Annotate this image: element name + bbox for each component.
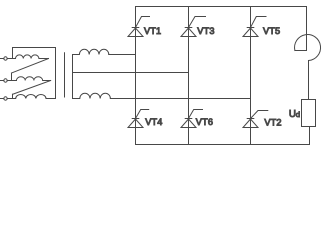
wire top DC bus <box>136 6 307 8</box>
wire resistor to bottom bus <box>309 127 311 145</box>
wire bridge leg 3 <box>250 7 252 145</box>
wire lead-in phase C <box>0 98 4 100</box>
wire phase b to bridge leg 2 <box>73 72 189 74</box>
transformer T primary phase C terminal <box>4 97 7 100</box>
load resistor R <box>302 100 316 127</box>
smoothing reactor L (loop) <box>295 35 321 61</box>
svg-text:VT5: VT5 <box>263 26 280 36</box>
wire delta right rail <box>55 48 57 99</box>
wire phase a to bridge leg 1 <box>109 54 136 56</box>
wire delta link B-C (diagonal) <box>13 81 51 95</box>
wire terminal B to winding <box>7 80 11 82</box>
wire bottom DC bus <box>136 144 310 146</box>
svg-text:VT4: VT4 <box>145 117 162 127</box>
wire delta stub A up <box>12 48 14 59</box>
wire into reactor center <box>295 50 307 52</box>
wire terminal A to winding <box>7 58 12 60</box>
primary winding A (coil) <box>13 55 49 59</box>
primary winding C (coil) <box>13 94 56 98</box>
secondary winding a (coil) <box>73 49 109 54</box>
thyristor VT5 <box>243 17 266 37</box>
wire terminal C to winding <box>7 98 12 100</box>
thyristor VT1 <box>128 17 150 37</box>
svg-text:VT1: VT1 <box>144 26 161 36</box>
wire bridge leg 2 <box>188 7 190 145</box>
svg-text:VT2: VT2 <box>264 117 281 127</box>
wire delta stub B up <box>11 73 13 81</box>
thyristor VT3 <box>181 17 206 37</box>
svg-text:d: d <box>296 110 300 119</box>
wire delta link A-B (diagonal) <box>12 59 49 74</box>
wire phase c to bridge leg 3 <box>110 98 250 100</box>
secondary winding c (coil) <box>73 93 111 98</box>
wire reactor to resistor <box>308 61 310 100</box>
thyristor VT4 <box>128 110 149 128</box>
secondary star rail <box>72 55 74 99</box>
wire delta stub C up <box>12 94 14 98</box>
thyristor VT2 <box>243 111 268 128</box>
wire load entry from top bus <box>306 7 308 51</box>
svg-text:VT6: VT6 <box>196 117 213 127</box>
wire bridge leg 1 <box>135 7 137 145</box>
transformer T primary phase B terminal <box>4 79 7 82</box>
wire lead-in phase A <box>0 58 4 60</box>
thyristor VT6 <box>181 110 203 128</box>
svg-text:VT3: VT3 <box>197 26 214 36</box>
wire delta top link <box>13 47 56 49</box>
primary winding B (coil) <box>12 77 51 81</box>
transformer T primary phase A terminal <box>4 57 7 60</box>
wire lead-in phase B <box>0 80 4 82</box>
transformer core <box>64 53 66 97</box>
